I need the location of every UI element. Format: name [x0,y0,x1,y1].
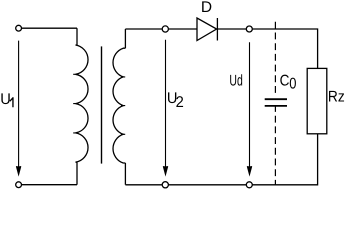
wire terminal to resistor corner [252,29,317,68]
wire resistor to bottom [252,134,317,185]
terminal secondary bottom [162,182,168,188]
diode D [197,18,217,41]
wire terminal to diode [168,28,197,30]
transformer primary winding [73,28,88,185]
wire bottom middle [168,184,246,186]
dashed branch wire lower [274,105,276,185]
svg-text:D: D [201,0,212,16]
dashed branch wire upper [274,22,276,96]
svg-text:2: 2 [176,94,184,111]
svg-text:U: U [0,91,11,108]
resistor Rz [307,68,327,133]
wire secondary to terminal U2 [125,28,162,30]
transformer secondary winding [113,29,125,185]
wire diode to terminal Ud [217,28,246,30]
capacitor C0 [265,99,287,106]
terminal secondary top [162,26,168,32]
svg-text:Ud: Ud [229,72,242,89]
voltage arrow U2 [163,40,167,175]
terminal top-left [16,25,22,31]
svg-text:C: C [280,72,290,89]
voltage arrow U1 [16,41,20,175]
wire bottom-left [22,184,77,186]
voltage arrow Ud [247,42,251,174]
terminal Ud bottom [246,182,252,188]
terminal Ud top [246,26,252,32]
wire top-left [22,27,77,29]
wire bottom to secondary [125,184,162,186]
svg-text:0: 0 [289,76,297,93]
terminal bottom-left [16,182,22,188]
svg-text:Rz: Rz [328,89,345,106]
transformer core [101,46,103,163]
